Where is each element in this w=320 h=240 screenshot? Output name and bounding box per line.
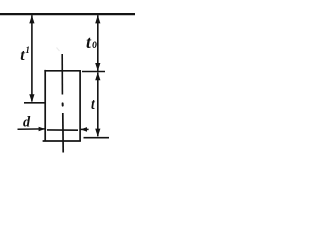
svg-text:d: d (23, 114, 31, 130)
arrowhead up t0 (95, 15, 100, 23)
centerline dot (62, 103, 64, 105)
dimension tail d right (81, 128, 89, 130)
dimension line t0 (right vertical upper) (97, 15, 99, 71)
centerline lower solid segment (62, 113, 64, 153)
arrowhead up t (95, 72, 100, 80)
dimension line d (left leader) (18, 128, 45, 130)
svg-text:o: o (92, 35, 97, 51)
arrowhead down t1 (29, 94, 34, 102)
svg-text:t: t (91, 96, 96, 113)
svg-text:t: t (86, 32, 92, 52)
faint smudge (57, 48, 60, 52)
arrowhead up t1 (29, 15, 34, 23)
inner line near bottom of body (47, 129, 78, 131)
rectangle body bottom edge (43, 140, 81, 142)
extension line top of body (82, 71, 105, 73)
rectangle body left edge (44, 70, 46, 141)
rectangle body right edge (79, 70, 81, 141)
arrowhead down t (95, 129, 100, 137)
arrowhead right d (39, 127, 45, 132)
dimension line t (right vertical lower) (97, 72, 99, 136)
extension line bottom of t (84, 137, 110, 139)
centerline upper solid segment (61, 54, 63, 95)
dimension line t1 (left vertical) (31, 15, 33, 101)
extension line at t1 bottom (24, 102, 46, 104)
rectangle body top edge (44, 70, 80, 72)
top surface line (0, 13, 135, 15)
arrowhead left d (81, 127, 87, 132)
arrowhead down t0 (95, 63, 100, 71)
svg-text:1: 1 (25, 45, 30, 55)
